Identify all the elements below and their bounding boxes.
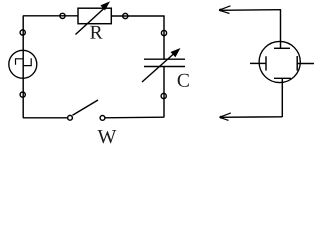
pulse generator G1 square-wave glyph right <box>23 58 31 65</box>
resistor R1 variable arrow head <box>100 1 110 10</box>
wire right lower vertical <box>163 67 165 118</box>
terminal node on left wire lower <box>20 92 25 97</box>
wire bottom: switch to left corner <box>23 117 68 119</box>
capacitor C top plate <box>144 58 185 60</box>
switch W left terminal <box>68 115 73 120</box>
switch W blade <box>73 100 99 115</box>
tube right lead <box>297 63 314 65</box>
wire top-right horizontal <box>219 9 281 12</box>
tube bottom lead <box>281 78 283 117</box>
resistor R1 body <box>78 8 111 24</box>
terminal node on right wire lower <box>161 93 166 98</box>
tube top electrode bar <box>274 47 290 49</box>
terminal node on left wire upper <box>20 30 25 35</box>
tube envelope circle <box>259 41 300 82</box>
tube bottom electrode bar <box>274 77 291 79</box>
wire right side vertical <box>163 16 165 59</box>
svg-text:R: R <box>90 23 103 44</box>
tube left electrode bar <box>265 56 267 70</box>
tube top lead <box>280 10 282 48</box>
arrow tip blob top <box>219 9 222 12</box>
terminal node on top wire left <box>60 13 65 18</box>
wire left side vertical <box>22 16 24 118</box>
wire top: resistor to top-right corner <box>111 15 164 17</box>
pulse generator G1 circle <box>9 50 37 78</box>
arrow tip blob bottom <box>220 116 223 119</box>
tube right electrode bar <box>296 56 298 71</box>
pulse generator G1 square-wave glyph left <box>16 59 24 65</box>
wire bottom: right corner to switch <box>105 116 165 119</box>
tube left lead <box>250 62 266 64</box>
wire bottom-right horizontal <box>220 116 283 119</box>
resistor R1 variable arrow shaft <box>76 8 106 35</box>
switch W right terminal <box>100 116 105 121</box>
wire top: left corner to resistor <box>23 15 78 17</box>
capacitor C variable arrow head <box>171 48 181 57</box>
svg-text:C: C <box>177 71 190 92</box>
terminal node on right wire upper <box>161 30 166 35</box>
arrow head bottom (open) <box>220 113 231 121</box>
terminal node on top wire right <box>123 13 128 18</box>
arrow head top (open) <box>219 6 231 14</box>
svg-text:W: W <box>98 126 117 148</box>
capacitor C bottom plate <box>144 66 185 68</box>
capacitor C variable arrow shaft <box>142 54 174 82</box>
